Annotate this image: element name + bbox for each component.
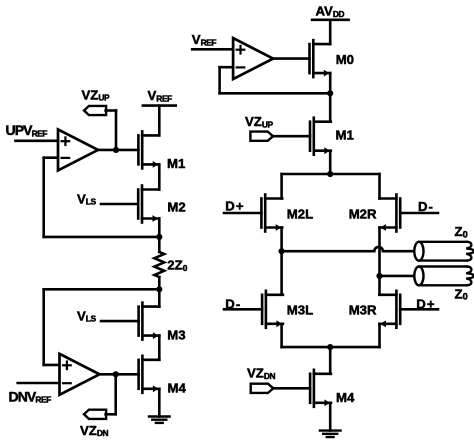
svg-text:M3R: M3R <box>349 302 377 317</box>
svg-text:VZUP: VZUP <box>82 87 111 102</box>
svg-text:AVDD: AVDD <box>316 4 345 19</box>
svg-text:M0: M0 <box>336 52 354 67</box>
svg-text:VREF: VREF <box>148 88 173 103</box>
svg-text:VLS: VLS <box>77 191 97 206</box>
svg-text:M3L: M3L <box>287 302 313 317</box>
svg-text:Z0: Z0 <box>455 224 468 239</box>
svg-text:M1: M1 <box>167 156 185 171</box>
svg-text:VZDN: VZDN <box>247 366 276 381</box>
svg-text:D-: D- <box>418 199 434 214</box>
svg-text:M3: M3 <box>167 328 185 343</box>
svg-text:2Z0: 2Z0 <box>167 258 187 273</box>
svg-text:M2R: M2R <box>349 206 377 221</box>
svg-text:UPVREF: UPVREF <box>6 122 48 138</box>
svg-text:M1: M1 <box>336 128 354 143</box>
svg-text:D+: D+ <box>416 297 435 312</box>
svg-text:M4: M4 <box>168 381 187 396</box>
svg-text:D-: D- <box>225 296 241 311</box>
svg-text:M2: M2 <box>167 200 185 215</box>
svg-text:VZDN: VZDN <box>80 423 109 438</box>
svg-text:M2L: M2L <box>287 206 313 221</box>
svg-text:VZUP: VZUP <box>245 114 274 129</box>
svg-text:VLS: VLS <box>77 308 97 323</box>
svg-text:Z0: Z0 <box>455 286 468 301</box>
svg-text:VREF: VREF <box>192 32 217 47</box>
svg-text:D+: D+ <box>225 199 244 214</box>
svg-text:M4: M4 <box>336 390 355 405</box>
svg-text:DNVREF: DNVREF <box>9 388 52 404</box>
